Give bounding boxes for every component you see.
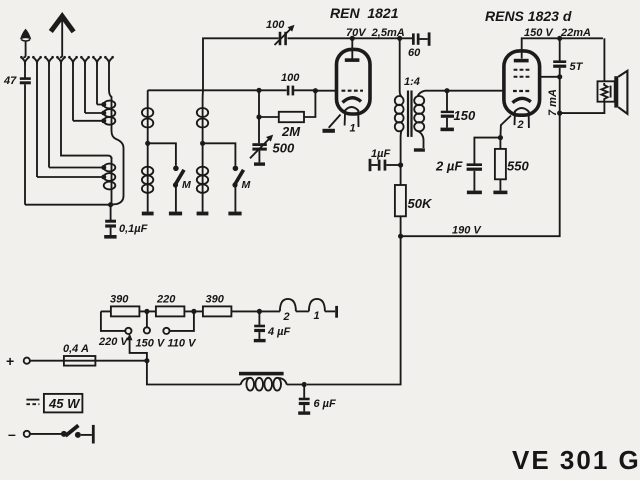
wire anode bus V2 <box>522 38 603 58</box>
junction 190V <box>398 234 403 239</box>
ground V1 cathode <box>323 129 335 133</box>
wire to heater line <box>147 361 241 385</box>
svg-text:7 mA: 7 mA <box>547 89 559 116</box>
wire 2M left stub <box>259 90 279 117</box>
svg-text:60: 60 <box>408 47 421 59</box>
terminal switch end <box>92 425 95 444</box>
wire speaker feed <box>603 38 605 81</box>
junction transformer top <box>397 36 402 41</box>
junction coil bottom <box>108 202 113 207</box>
capacitor 100b <box>287 86 294 96</box>
junction cathode V2 <box>498 135 503 140</box>
svg-text:1:4: 1:4 <box>404 76 420 88</box>
wire socket7 tap <box>97 63 102 105</box>
junction grid right <box>313 88 318 93</box>
svg-text:100: 100 <box>281 72 300 84</box>
svg-text:150 V: 150 V <box>136 338 166 350</box>
tube V2 RENS1823d <box>500 51 539 138</box>
trimmer capacitor 100a <box>275 25 295 45</box>
wire socket8 to coil top <box>109 63 112 100</box>
wire grid RENS <box>425 90 504 92</box>
plug hook socket4 <box>60 55 62 57</box>
svg-text:0,1µF: 0,1µF <box>119 223 148 235</box>
junction 1uF <box>398 162 403 167</box>
ground L2 <box>142 212 154 216</box>
capacitor 47 <box>20 63 31 205</box>
resistor 220 <box>156 306 185 316</box>
wire speaker return <box>560 102 605 113</box>
svg-text:45 W: 45 W <box>48 396 81 411</box>
svg-text:22mA: 22mA <box>560 27 591 39</box>
svg-text:2: 2 <box>283 311 290 323</box>
svg-text:47: 47 <box>3 75 17 87</box>
fuse 0,4A <box>64 356 96 366</box>
junction 5T top <box>557 36 562 41</box>
wire cathode to 2uF <box>474 138 500 164</box>
svg-text:110 V: 110 V <box>168 338 198 350</box>
svg-text:70V 2,5mA: 70V 2,5mA <box>346 27 405 39</box>
wire socket6 tap <box>85 63 102 113</box>
svg-text:220: 220 <box>156 294 176 306</box>
junction R1 R2 <box>144 309 149 314</box>
svg-text:390: 390 <box>206 294 225 306</box>
ground 500 <box>254 162 265 165</box>
wire resistor chain <box>101 310 260 312</box>
ground T1 secondary <box>414 148 425 151</box>
antenna earth arrow <box>20 29 31 56</box>
tap 150V <box>144 311 150 333</box>
terminal heater <box>335 306 338 318</box>
svg-text:REN 1821: REN 1821 <box>330 5 399 21</box>
trimmer capacitor 500 <box>250 117 273 162</box>
junction screen <box>557 74 562 79</box>
choke core <box>239 372 284 376</box>
wire plus to fuse <box>30 360 64 362</box>
capacitor 5T <box>553 38 566 113</box>
junction R2 R3 <box>191 309 196 314</box>
junction speaker return <box>557 111 562 116</box>
ground 550 <box>493 191 507 195</box>
svg-text:–: – <box>8 426 16 442</box>
terminal plus <box>24 358 30 364</box>
junction L3 tap <box>200 141 205 146</box>
svg-text:0,4 A: 0,4 A <box>63 343 89 355</box>
svg-text:1µF: 1µF <box>371 148 390 160</box>
rating box 45W <box>44 394 83 413</box>
svg-text:150: 150 <box>454 108 476 123</box>
svg-text:VE 301 G: VE 301 G <box>512 445 640 475</box>
capacitor 150 <box>441 91 454 128</box>
svg-text:550: 550 <box>507 159 529 174</box>
voltage selector arrow <box>127 333 147 361</box>
wire socket5 tap <box>73 63 102 121</box>
wire socket3 tap <box>49 63 102 168</box>
capacitor 1uF pickup <box>369 159 401 171</box>
heater winding 1 <box>309 299 335 312</box>
tap 220V <box>101 311 132 334</box>
antenna arrow <box>51 16 74 55</box>
antenna socket row <box>20 56 114 65</box>
wire screen grid <box>540 76 560 78</box>
antenna coil L1 upper <box>101 99 115 131</box>
wire L3 top feed <box>202 91 204 101</box>
junction 6uF <box>302 382 307 387</box>
wire 190V line <box>401 113 560 236</box>
switch M1 <box>173 166 184 212</box>
svg-text:4 µF: 4 µF <box>267 326 291 338</box>
loudspeaker LS <box>598 71 628 114</box>
wire minus <box>30 433 61 435</box>
heater winding 2 <box>259 299 309 312</box>
svg-text:M: M <box>182 179 191 191</box>
svg-text:100: 100 <box>266 19 285 31</box>
DC symbol <box>26 400 39 405</box>
wire B minus drop <box>307 236 401 384</box>
ground 150 <box>441 128 454 132</box>
junction 2M left <box>256 114 261 119</box>
svg-text:2 µF: 2 µF <box>435 159 463 174</box>
transformer T1 <box>395 38 425 165</box>
wire fuse to junction <box>95 360 146 362</box>
wire grid bus <box>148 89 337 91</box>
wire socket2 tap <box>37 63 102 177</box>
svg-text:1: 1 <box>350 123 356 135</box>
resistor 50K <box>395 165 406 236</box>
wire ground bus <box>25 204 111 206</box>
capacitor 2uF <box>467 163 482 190</box>
antenna coil L1 lower <box>101 157 115 205</box>
wire 2M right stub <box>304 91 315 117</box>
svg-text:+: + <box>6 353 14 369</box>
wire coil bypass <box>111 131 124 205</box>
junction tube V1 anode <box>350 36 355 41</box>
junction L2 tap <box>145 141 150 146</box>
svg-text:6 µF: 6 µF <box>314 398 337 410</box>
capacitor 6uF <box>299 385 310 412</box>
junction 4uF <box>257 309 262 314</box>
svg-text:M: M <box>242 179 251 191</box>
svg-text:190 V: 190 V <box>452 225 482 237</box>
capacitor 60 <box>412 32 431 45</box>
ground 6uF <box>298 411 310 414</box>
ground M2 <box>228 212 241 216</box>
svg-text:390: 390 <box>110 294 129 306</box>
svg-text:220 V: 220 V <box>98 336 129 348</box>
ground at 0.1uF <box>104 235 116 239</box>
switch M2 <box>232 166 243 212</box>
mains switch <box>61 425 92 438</box>
resistor 390b <box>203 306 232 316</box>
svg-text:RENS 1823 d: RENS 1823 d <box>485 8 572 24</box>
terminal minus <box>24 431 30 437</box>
ground L3 <box>197 212 209 216</box>
wire L3 tap to switch <box>203 143 236 165</box>
ground 4uF <box>254 339 266 342</box>
ground M1 <box>169 212 182 216</box>
ground 2uF <box>467 191 482 195</box>
wire L2 tap to switch <box>148 143 176 165</box>
tuned coil L2 <box>142 90 153 212</box>
svg-text:5T: 5T <box>570 61 584 73</box>
junction mains <box>144 358 149 363</box>
tuned coil L3 <box>197 101 208 212</box>
svg-text:150 V: 150 V <box>524 27 554 39</box>
resistor 390a <box>111 306 139 316</box>
resistor 2M <box>279 112 304 122</box>
wire choke to junction <box>287 384 304 386</box>
tap 110V <box>163 311 194 334</box>
junction 150 <box>444 88 449 93</box>
wire socket4 tap <box>61 63 112 159</box>
svg-text:2: 2 <box>517 119 524 131</box>
resistor 550 <box>495 138 506 191</box>
capacitor 0.1uF <box>105 205 116 235</box>
capacitor 4uF <box>254 311 265 339</box>
svg-text:50K: 50K <box>408 196 433 211</box>
junction grid left <box>256 88 261 93</box>
plug hook socket1 <box>23 55 25 57</box>
choke coil <box>241 378 287 391</box>
wire top bus <box>203 38 412 91</box>
svg-text:500: 500 <box>273 141 295 156</box>
svg-text:1: 1 <box>314 310 320 322</box>
tube V1 REN1821 <box>329 38 370 128</box>
svg-text:2M: 2M <box>281 124 301 139</box>
